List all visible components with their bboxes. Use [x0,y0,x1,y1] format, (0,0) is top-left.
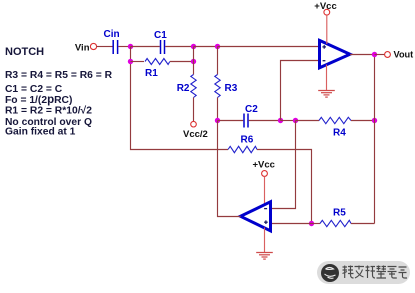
label C1 [154,30,167,41]
label R2 [177,83,190,94]
note line 3 [5,94,72,106]
svg-text:R1 = R2 = R*10/√2: R1 = R2 = R*10/√2 [5,105,92,117]
capacitor Cin [113,40,117,54]
wire op-amp U2 plus input [272,223,312,225]
label Vcc/2 [183,129,208,140]
wire R1 left lead [131,61,145,63]
wire C2 to node M1 [249,120,281,122]
resistor R5 [320,220,351,226]
svg-text:Vout: Vout [394,50,414,60]
wire C1 to node B [165,46,193,48]
wire R3 to node X [217,98,219,121]
svg-text:Vin: Vin [75,43,90,54]
wire node M1 to node M2 [281,120,296,122]
svg-text:Gain fixed at 1: Gain fixed at 1 [5,127,76,138]
wire op-amp U2 to ground [264,228,266,253]
wire node C to op-amp U1 plus input [218,46,320,48]
wire Vin to Cin [97,46,113,48]
wire node B down to R2 [193,47,195,75]
svg-text:+Vcc: +Vcc [253,160,275,171]
wire node B to node C [194,46,218,48]
wire node M2 to R4 [296,120,320,122]
svg-text:R3 = R4 = R5 = R6 = R: R3 = R4 = R5 = R6 = R [5,70,113,81]
label R4 [333,128,346,139]
terminal Vin [90,43,96,49]
svg-text:R2: R2 [177,83,190,94]
node C [215,44,220,49]
node B [191,44,196,49]
label C2 [245,104,258,115]
wire node A to C1 [131,46,160,48]
resistor R2 [191,75,196,98]
terminal +Vcc bottom [262,171,268,177]
svg-text:R5: R5 [333,208,346,219]
svg-text:NOTCH: NOTCH [5,46,44,58]
node M1 [278,118,283,123]
svg-text:Cin: Cin [104,29,120,40]
wire node M1 up to op-amp U1 minus input [281,61,320,121]
watermark text [343,266,408,279]
svg-text:C1: C1 [154,30,167,41]
svg-text:Vcc/2: Vcc/2 [183,129,208,140]
label Cin [104,29,120,40]
label Vout [394,50,414,60]
capacitor C2 [244,114,248,128]
wire op-amp U2 output to node X [218,121,241,217]
node M2 [293,118,298,123]
op-amp U1 [320,40,351,67]
resistor R6 [228,146,257,152]
ground G1 [318,91,335,98]
svg-text:C1 = C2 = C: C1 = C2 = C [5,84,63,95]
resistor R3 [215,75,220,98]
label R5 [333,208,346,219]
node B2 junction of R1 right [191,59,196,64]
wire to Vout terminal [375,54,385,56]
label R3 [225,83,238,94]
svg-text:R3: R3 [225,83,238,94]
wire Vout rail vertical [374,55,376,224]
watermark logo disc [321,264,339,282]
wire R5 to Vout rail [351,223,375,225]
note line 1 [5,70,113,81]
wire node X to C2 [218,120,244,122]
wire +Vcc to op-amp U1 [326,15,328,44]
node D [372,118,377,123]
svg-text:C2: C2 [245,104,258,115]
svg-text:Fo = 1/(2pRC): Fo = 1/(2pRC) [5,94,72,106]
node P [309,221,314,226]
wire R4 to node D [351,120,375,122]
note line 4 [5,105,92,117]
node A [128,44,133,49]
title NOTCH [5,46,44,58]
wire node P to R5 [312,223,321,225]
svg-text:R1: R1 [145,68,158,79]
wire R2 to Vcc/2 [193,98,195,122]
note line 2 [5,84,63,95]
wire node C down to R3 [217,47,219,75]
terminal Vcc/2 [191,121,197,127]
label +Vcc bottom [253,160,275,171]
node A2 junction of R1 left [128,59,133,64]
node X [215,118,220,123]
label Vin [75,43,90,54]
note line 6 [5,127,76,138]
label R6 [241,135,254,146]
wire R6 to op-amp U2 plus input [257,150,312,224]
op-amp U2 [241,202,271,231]
wire node M2 down to op-amp U2 minus input [272,121,296,209]
terminal +Vcc top [324,9,330,15]
wire Cin to node A [118,46,130,48]
wire op-amp U1 output [350,54,375,56]
node Vout [372,52,377,57]
svg-text:R4: R4 [333,128,346,139]
wire node A down to R6 rail [131,47,229,150]
wire op-amp U1 to ground [326,65,328,91]
resistor R1 [145,59,170,65]
resistor R4 [319,117,351,123]
capacitor C1 [161,40,165,54]
label R1 [145,68,158,79]
ground G2 [256,253,273,260]
wire +Vcc to op-amp U2 [264,176,266,205]
label +Vcc top [314,1,336,12]
watermark strip [317,261,410,284]
terminal Vout [385,52,391,58]
note line 5 [5,117,92,128]
wire R1 right lead [170,61,194,63]
svg-text:R6: R6 [241,135,254,146]
